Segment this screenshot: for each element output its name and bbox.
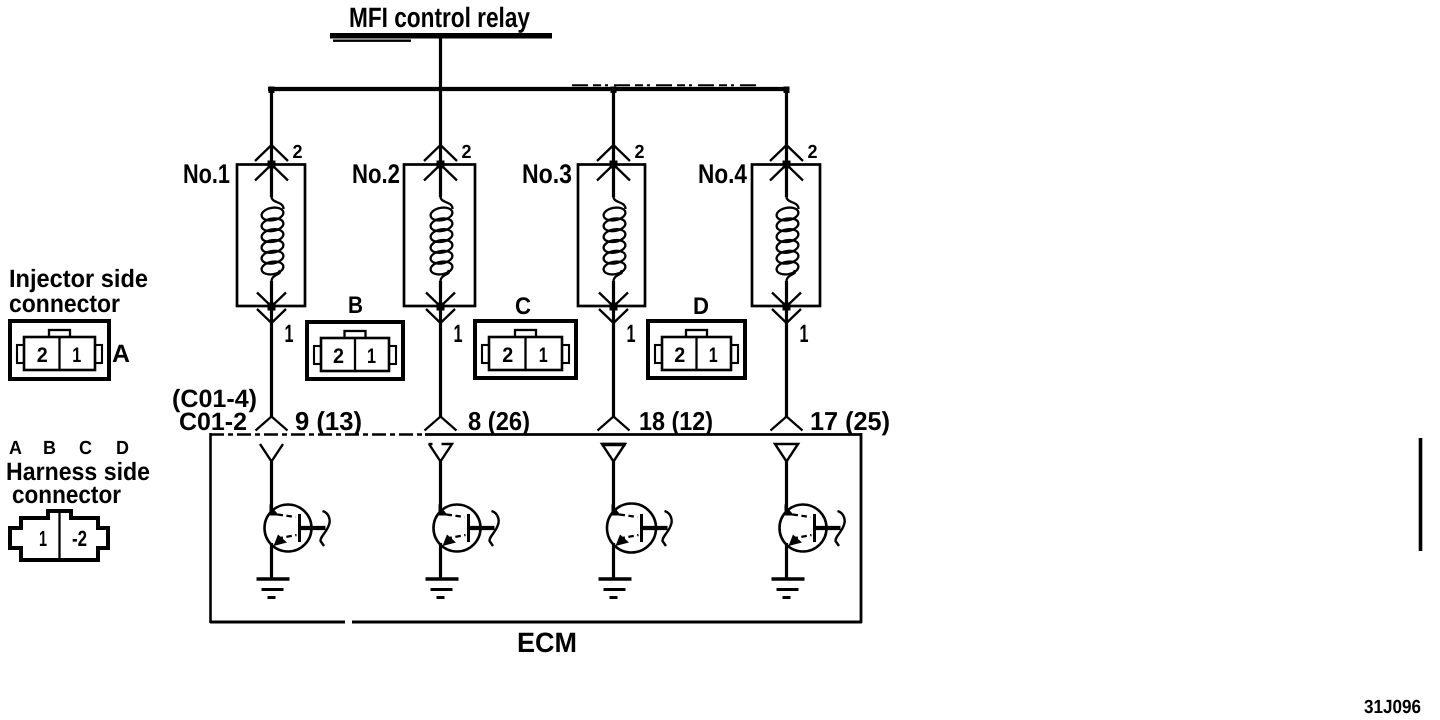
svg-text:2: 2	[462, 142, 472, 163]
wire: injector No.1 drop from bus	[270, 89, 273, 197]
injector No.3 body box	[578, 165, 645, 307]
junction: bus to No.1 drop	[269, 87, 275, 94]
svg-text:Injector side: Injector side	[9, 265, 148, 293]
junction blob at No.3 box top	[610, 161, 618, 169]
svg-text:18 (12): 18 (12)	[639, 406, 713, 436]
transistor Q4	[780, 504, 845, 552]
injector No.2 coil	[430, 197, 454, 282]
connector terminal chevrons, pin 2 side of No.4	[770, 145, 803, 181]
connector A (injector side)	[10, 321, 109, 379]
connector terminal chevrons, pin 2 side of No.2	[424, 145, 457, 181]
connector terminal chevrons, pin 1 side of No.1	[257, 293, 286, 324]
transistor Q2	[434, 504, 499, 552]
ECM terminal triangle (pin 9)	[260, 444, 283, 462]
svg-text:31J096: 31J096	[1364, 697, 1421, 718]
ECM box bottom edge	[210, 621, 345, 624]
svg-text:2: 2	[808, 142, 818, 163]
ECM terminal triangle (pin 8)	[429, 444, 452, 462]
wire: No.2 harness run to ECM	[439, 306, 442, 418]
connector B (injector side)	[307, 322, 403, 379]
junction blob at No.1 box bottom	[268, 303, 276, 311]
svg-text:2: 2	[333, 345, 344, 368]
wire: No.4 harness run to ECM	[785, 306, 788, 418]
junction: bus to No.3 drop	[611, 87, 617, 94]
junction blob at No.1 box top	[268, 161, 276, 169]
svg-text:A: A	[9, 438, 22, 459]
harness connector funnel above ECM (No.1 circuit)	[256, 417, 288, 431]
svg-text:D: D	[693, 293, 709, 320]
junction blob at No.3 box bottom	[610, 303, 618, 311]
wire: base lead of Q4	[785, 462, 788, 515]
svg-text:2: 2	[635, 142, 645, 163]
connector terminal chevrons, pin 1 side of No.3	[599, 293, 628, 324]
ECM terminal triangle (pin 18)	[602, 444, 625, 462]
svg-text:No.1: No.1	[183, 159, 230, 189]
svg-text:D: D	[116, 438, 129, 459]
svg-text:B: B	[43, 438, 56, 459]
svg-text:connector: connector	[12, 481, 121, 509]
wire: emitter of Q2 to ground	[439, 543, 442, 579]
wire: No.2 coil exit to box bottom	[439, 281, 442, 306]
connector terminal chevrons, pin 1 side of No.2	[426, 293, 455, 324]
svg-text:A: A	[112, 340, 130, 368]
wire: supply bus	[268, 87, 789, 91]
wire: base lead of Q1	[270, 462, 273, 515]
wire: emitter of Q1 to ground	[270, 543, 273, 579]
scan artifact: dashes above bus	[572, 84, 758, 86]
ECM box right edge	[860, 433, 863, 623]
svg-text:2: 2	[674, 344, 685, 367]
svg-text:1: 1	[39, 526, 47, 551]
injector No.4 body box	[752, 165, 820, 307]
svg-text:B: B	[348, 292, 363, 319]
svg-text:-2: -2	[72, 526, 87, 551]
harness connector funnel above ECM (No.4 circuit)	[771, 417, 803, 431]
scan artifact: doubled line under relay bar	[333, 40, 411, 42]
wire: base lead of Q3	[612, 462, 615, 515]
injector No.1 coil	[261, 197, 285, 282]
svg-text:C: C	[79, 438, 92, 459]
svg-text:1: 1	[454, 320, 463, 348]
svg-text:1: 1	[800, 320, 809, 348]
harness connector funnel above ECM (No.3 circuit)	[598, 417, 630, 431]
connector terminal chevrons, pin 2 side of No.1	[255, 145, 288, 181]
svg-text:connector: connector	[9, 290, 120, 318]
svg-text:C01-2: C01-2	[179, 408, 247, 436]
svg-text:1: 1	[709, 344, 718, 367]
transistor Q3	[607, 504, 672, 553]
svg-text:No.2: No.2	[352, 159, 400, 189]
junction blob at No.4 box top	[783, 161, 791, 169]
injector No.3 coil	[603, 197, 627, 282]
junction blob at No.4 box bottom	[783, 303, 791, 311]
junction blob at No.2 box bottom	[437, 303, 445, 311]
junction blob at No.2 box top	[437, 161, 445, 169]
harness side connector body	[10, 511, 108, 560]
ground symbol G3	[599, 579, 632, 598]
svg-text:1: 1	[72, 344, 81, 367]
svg-text:No.4: No.4	[698, 159, 747, 189]
connector C (injector side)	[475, 321, 576, 378]
wire: injector No.2 drop from bus	[439, 89, 442, 197]
wire: No.4 coil exit to box bottom	[785, 281, 788, 306]
wire: No.3 coil exit to box bottom	[612, 281, 615, 306]
connector terminal chevrons, pin 1 side of No.4	[772, 293, 801, 324]
svg-text:No.3: No.3	[522, 159, 572, 189]
wire: relay output down to bus	[439, 38, 442, 91]
ground symbol G1	[257, 579, 290, 598]
svg-text:1: 1	[367, 345, 376, 368]
svg-text:C: C	[515, 293, 531, 320]
right margin tick mark	[1419, 438, 1423, 551]
ECM box top edge (solid)	[425, 433, 862, 436]
svg-text:1: 1	[285, 320, 294, 348]
wire: No.1 coil exit to box bottom	[270, 281, 273, 306]
connector D (injector side)	[648, 321, 745, 378]
wire: emitter of Q4 to ground	[785, 543, 788, 579]
harness connector funnel above ECM (No.2 circuit)	[425, 417, 457, 431]
wire: base lead of Q2	[439, 462, 442, 515]
MFI control relay terminal bar	[330, 33, 552, 39]
ECM terminal triangle (pin 17)	[775, 444, 798, 462]
svg-text:MFI control relay: MFI control relay	[349, 2, 530, 33]
junction: bus to No.4 drop	[784, 87, 790, 94]
connector terminal chevrons, pin 2 side of No.3	[597, 145, 630, 181]
wire: No.3 harness run to ECM	[612, 306, 615, 418]
svg-text:1: 1	[539, 344, 548, 367]
svg-text:9 (13): 9 (13)	[295, 406, 362, 436]
svg-text:2: 2	[37, 344, 48, 367]
transistor Q1	[265, 504, 330, 552]
svg-text:17 (25): 17 (25)	[810, 406, 890, 436]
svg-text:2: 2	[502, 344, 513, 367]
ground symbol G2	[426, 579, 459, 598]
injector No.1 body box	[237, 165, 305, 307]
ECM box left edge	[209, 433, 212, 623]
wire: emitter of Q3 to ground	[612, 543, 615, 579]
harness side connector divider	[58, 512, 60, 560]
svg-text:1: 1	[627, 320, 636, 348]
injector No.2 body box	[404, 165, 475, 307]
svg-text:8 (26): 8 (26)	[468, 406, 530, 436]
wire: injector No.3 drop from bus	[612, 89, 615, 197]
svg-text:2: 2	[293, 142, 303, 163]
svg-text:ECM: ECM	[517, 627, 577, 658]
wire: No.1 harness run to ECM	[270, 306, 273, 418]
ground symbol G4	[772, 579, 805, 598]
wire: injector No.4 drop from bus	[785, 89, 788, 197]
injector No.4 coil	[776, 197, 800, 282]
ECM box top edge (dashed left part)	[210, 433, 425, 435]
